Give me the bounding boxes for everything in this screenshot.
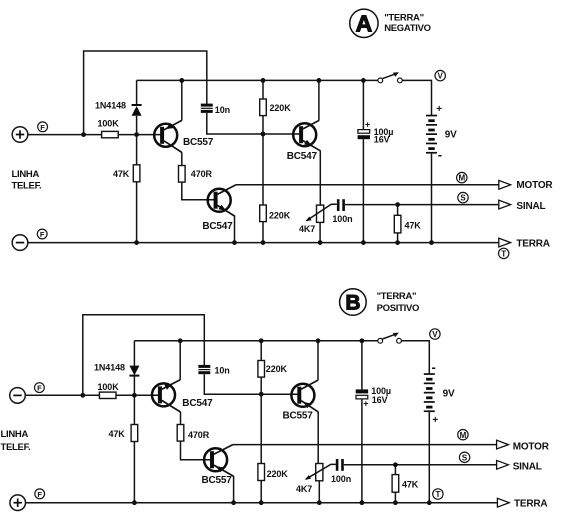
svg-text:-: - xyxy=(438,147,442,162)
wire 220K upper to junction (B) xyxy=(260,377,262,394)
capacitor 100u 16V (B) xyxy=(356,341,391,503)
svg-text:1N4148: 1N4148 xyxy=(94,363,125,373)
wire switch to battery corner (B) xyxy=(401,341,429,374)
node base/diode junction (A) xyxy=(134,132,139,137)
resistor 470R (B) xyxy=(177,425,210,442)
svg-text:16V: 16V xyxy=(374,135,390,145)
wire TERRA line (B) xyxy=(26,502,498,504)
wire Q3 collector up to rail (A) xyxy=(318,80,320,120)
terminal T (B) xyxy=(433,489,443,499)
wire Q1 emitter up to rail (A) xyxy=(181,80,183,120)
svg-text:BC547: BC547 xyxy=(287,151,318,162)
terminal F lower (A) xyxy=(37,229,47,239)
wire 220K upper to junction (A) xyxy=(262,116,264,134)
terminal V (B) xyxy=(430,329,440,339)
wire input line - to 100K (B) xyxy=(25,394,99,396)
svg-text:BC557: BC557 xyxy=(183,137,214,148)
node input/top-loop junction (A) xyxy=(81,132,86,137)
node Q3 collector/rail (A) xyxy=(317,78,322,83)
svg-text:47K: 47K xyxy=(109,429,126,439)
svg-text:"TERRA": "TERRA" xyxy=(377,291,417,302)
svg-text:POSITIVO: POSITIVO xyxy=(377,303,419,314)
wire rail to 220K upper (A) xyxy=(262,80,264,99)
wire 470R to base Q5 (B) xyxy=(181,441,212,460)
svg-text:A: A xyxy=(356,10,373,36)
battery 9V (B) xyxy=(424,360,455,426)
svg-text:47K: 47K xyxy=(113,169,130,179)
diode 1N4148 (A) xyxy=(95,100,142,116)
svg-text:V: V xyxy=(432,330,438,339)
wire switch to battery corner (A) xyxy=(402,80,431,115)
resistor 47K input (B) xyxy=(109,425,138,442)
svg-text:NEGATIVO: NEGATIVO xyxy=(384,23,431,34)
svg-text:T: T xyxy=(435,490,440,499)
wire Q6 emitter down to pot (B) xyxy=(317,412,319,464)
arrow SINAL (A) xyxy=(499,200,511,209)
node 47K/sinal (A) xyxy=(395,202,400,207)
capacitor 100n (A) xyxy=(332,199,352,224)
svg-text:V: V xyxy=(438,72,444,81)
wire 47K to terra (A) xyxy=(397,233,399,243)
svg-text:+: + xyxy=(436,104,442,115)
battery 9V (A) xyxy=(426,104,457,162)
svg-text:BC557: BC557 xyxy=(283,410,314,421)
transistor Q3 BC547 (A) xyxy=(287,121,321,162)
svg-text:100n: 100n xyxy=(332,214,352,224)
svg-text:10n: 10n xyxy=(215,365,230,375)
wire junction down to 220K lower (A) xyxy=(262,134,264,205)
wire rail to 220K upper (B) xyxy=(260,341,262,361)
transistor Q6 BC557 (B) xyxy=(283,380,319,421)
terminal F lower (B) xyxy=(35,489,45,499)
resistor 470R (A) xyxy=(179,166,213,183)
wire 4K7 to terra (A) xyxy=(319,222,321,242)
svg-text:47K: 47K xyxy=(405,221,422,231)
wire junction down to 220K lower (B) xyxy=(260,394,262,463)
wire sinal to 47K (A) xyxy=(397,205,399,216)
node 220K lower/terra (A) xyxy=(261,240,266,245)
svg-text:F: F xyxy=(37,490,42,499)
svg-text:SINAL: SINAL xyxy=(516,201,545,212)
diode 1N4148 (B) xyxy=(94,363,139,376)
wire MOTOR line (B) xyxy=(233,444,497,446)
svg-text:T: T xyxy=(501,250,506,259)
label "TERRA" POSITIVO xyxy=(377,291,419,314)
svg-text:470R: 470R xyxy=(191,169,213,179)
circuit B header badge xyxy=(340,289,367,316)
resistor 47K input (A) xyxy=(113,165,140,182)
wire 100K to base Q1 (A) xyxy=(118,134,161,136)
node 47K/terra (B) xyxy=(132,500,137,505)
svg-text:TERRA: TERRA xyxy=(516,238,549,249)
node battery/terra (A) xyxy=(429,240,434,245)
resistor 220K lower (B) xyxy=(258,464,288,481)
svg-text:470R: 470R xyxy=(188,430,210,440)
svg-text:TELEF.: TELEF. xyxy=(1,442,31,453)
resistor 220K upper (A) xyxy=(260,99,292,116)
node 4K7/terra (A) xyxy=(318,240,323,245)
switch S1 (A) xyxy=(378,72,402,83)
svg-text:1N4148: 1N4148 xyxy=(95,100,126,110)
node Q5 emitter/terra (B) xyxy=(231,500,236,505)
svg-text:100K: 100K xyxy=(98,119,120,129)
svg-text:M: M xyxy=(460,431,467,440)
node 100u/rail (B) xyxy=(360,338,365,343)
wire input line + to 100K (A) xyxy=(28,134,102,136)
svg-text:4K7: 4K7 xyxy=(299,224,315,234)
svg-text:B: B xyxy=(345,292,360,315)
capacitor 100u 16V (A) xyxy=(358,80,394,242)
wire Q3 emitter down to pot (A) xyxy=(319,150,321,205)
resistor 220K lower (A) xyxy=(260,205,291,222)
node 100u/rail (A) xyxy=(361,78,366,83)
transistor Q5 BC557 (B) xyxy=(202,445,234,487)
wire sinal to 47K (B) xyxy=(394,465,396,475)
svg-text:MOTOR: MOTOR xyxy=(516,180,553,191)
wire Q6 collector up to rail (B) xyxy=(317,341,319,381)
svg-text:-: - xyxy=(432,360,436,375)
node 10n/220K junction (A) xyxy=(261,132,266,137)
potentiometer 4K7 (B) xyxy=(296,464,336,494)
transistor Q1 BC557 (A) xyxy=(154,120,214,152)
svg-text:S: S xyxy=(460,194,466,203)
arrow MOTOR (A) xyxy=(499,180,511,189)
wire Q4 collector down to 470R (B) xyxy=(180,412,182,425)
node 220K/rail (A) xyxy=(261,78,266,83)
switch S2 (B) xyxy=(378,333,402,344)
node 220K lower/terra (B) xyxy=(259,500,264,505)
node 220K/rail (B) xyxy=(259,338,264,343)
svg-text:BC547: BC547 xyxy=(202,221,233,232)
svg-text:220K: 220K xyxy=(267,469,289,479)
label "TERRA" NEGATIVO xyxy=(384,12,431,34)
capacitor 100n (B) xyxy=(331,459,351,484)
node 47K/terra (B) xyxy=(393,500,398,505)
terminal + (A) xyxy=(12,127,28,143)
potentiometer 4K7 (A) xyxy=(299,204,337,234)
transistor Q4 BC547 (B) xyxy=(152,380,213,412)
wire Q4 emitter up to rail (B) xyxy=(179,341,181,380)
node emitter/rail (A) xyxy=(179,78,184,83)
svg-text:M: M xyxy=(458,174,465,183)
svg-text:100n: 100n xyxy=(331,474,351,484)
wire diode to input node (A) xyxy=(136,116,138,165)
svg-text:F: F xyxy=(37,384,42,393)
svg-text:220K: 220K xyxy=(270,103,292,113)
terminal T (A) xyxy=(499,248,509,258)
wire V- rail (B) xyxy=(134,340,377,342)
wire 100K to base Q4 (B) xyxy=(116,394,159,396)
svg-text:10n: 10n xyxy=(215,105,230,115)
node 47K/sinal (B) xyxy=(393,462,398,467)
label LINHA TELEF. (B) xyxy=(1,429,31,453)
capacitor 10n (A) xyxy=(201,104,230,115)
resistor 100K (B) xyxy=(98,382,120,398)
resistor 47K output (A) xyxy=(394,215,421,233)
wire rail down to diode (B) xyxy=(133,341,135,366)
arrow TERRA (B) xyxy=(497,498,509,507)
label LINHA TELEF. (A) xyxy=(12,169,42,192)
svg-text:9V: 9V xyxy=(445,129,457,140)
svg-text:47K: 47K xyxy=(402,479,419,489)
node 100u/terra (A) xyxy=(361,240,366,245)
wire SINAL line (A) xyxy=(345,204,499,206)
terminal M (B) xyxy=(458,430,468,440)
wire Q2 emitter down to terra (A) xyxy=(234,215,236,242)
wire 47K to terra (B) xyxy=(394,492,396,503)
wire 10n bottom to Q6 base net (B) xyxy=(204,374,298,394)
node 10n/220K junction (B) xyxy=(259,392,264,397)
svg-text:F: F xyxy=(40,230,45,239)
capacitor 10n (B) xyxy=(198,365,229,376)
node 100u/terra (B) xyxy=(360,500,365,505)
svg-text:100K: 100K xyxy=(98,382,120,392)
node Q6 collector/rail (B) xyxy=(316,338,321,343)
wire 470R to base Q2 (A) xyxy=(182,182,215,200)
wire 220K lower to terra (B) xyxy=(260,481,262,503)
wire 220K lower to terra (A) xyxy=(262,222,264,243)
node emitter/rail (B) xyxy=(178,338,183,343)
svg-text:TERRA: TERRA xyxy=(514,499,547,510)
wire rail down to diode (A) xyxy=(136,80,138,105)
svg-text:+: + xyxy=(432,415,438,426)
wire 47K to terra rail (B) xyxy=(133,442,135,503)
terminal M (A) xyxy=(457,172,467,182)
wire 4K7 to terra (B) xyxy=(318,481,320,503)
svg-text:220K: 220K xyxy=(266,364,288,374)
terminal - (B) xyxy=(10,388,26,404)
node battery/terra (B) xyxy=(427,500,432,505)
resistor 100K (A) xyxy=(98,119,120,138)
node 47K/terra (A) xyxy=(395,240,400,245)
svg-text:F: F xyxy=(40,123,45,132)
svg-text:LINHA: LINHA xyxy=(1,429,29,440)
arrow TERRA (A) xyxy=(499,238,511,247)
svg-text:LINHA: LINHA xyxy=(12,169,40,180)
wire Q5 emitter down to terra (B) xyxy=(233,476,235,503)
wire top feedback loop (B) xyxy=(83,315,205,396)
wire battery to terra (B) xyxy=(428,412,430,503)
node 4K7/terra (B) xyxy=(317,500,322,505)
svg-text:+: + xyxy=(365,119,370,129)
terminal V (A) xyxy=(435,70,445,80)
node input/top-loop junction (B) xyxy=(80,393,85,398)
svg-text:BC557: BC557 xyxy=(202,475,233,486)
svg-text:BC547: BC547 xyxy=(182,398,213,409)
svg-text:MOTOR: MOTOR xyxy=(513,441,550,452)
wire MOTOR line (A) xyxy=(236,184,499,186)
transistor Q2 BC547 (A) xyxy=(202,185,235,232)
wire 47K to terra rail (A) xyxy=(136,182,138,243)
node base/diode junction (B) xyxy=(132,393,137,398)
svg-text:+: + xyxy=(363,398,368,408)
svg-text:S: S xyxy=(462,453,468,462)
wire battery to terra (A) xyxy=(431,154,433,243)
wire SINAL line (B) xyxy=(344,464,497,466)
node 47K/terra (A) xyxy=(134,240,139,245)
wire top feedback loop (A) xyxy=(84,51,207,135)
terminal S (A) xyxy=(458,192,468,202)
terminal + (B) xyxy=(10,495,26,511)
node Q2 emitter/terra (A) xyxy=(232,240,237,245)
terminal F upper (A) xyxy=(38,122,48,132)
wire TERRA line (A) xyxy=(28,242,499,244)
svg-text:220K: 220K xyxy=(269,210,291,220)
svg-text:SINAL: SINAL xyxy=(513,462,542,473)
circuit A header badge xyxy=(350,9,378,37)
svg-text:"TERRA": "TERRA" xyxy=(384,12,424,23)
arrow MOTOR (B) xyxy=(497,440,509,449)
svg-text:16V: 16V xyxy=(372,395,388,405)
terminal - (A) xyxy=(12,235,28,251)
arrow SINAL (B) xyxy=(497,460,509,469)
svg-text:4K7: 4K7 xyxy=(296,484,312,494)
wire diode to input node (B) xyxy=(133,376,135,425)
wire V+ rail (A) xyxy=(137,79,378,81)
resistor 220K upper (B) xyxy=(258,361,288,378)
svg-text:9V: 9V xyxy=(443,388,455,399)
wire 10n bottom to Q3 base net (A) xyxy=(207,113,301,134)
resistor 47K output (B) xyxy=(392,475,419,493)
terminal S (B) xyxy=(459,452,469,462)
terminal F upper (B) xyxy=(35,383,45,393)
svg-text:TELEF.: TELEF. xyxy=(12,180,42,191)
wire Q1 collector down to 470R (A) xyxy=(181,152,183,165)
